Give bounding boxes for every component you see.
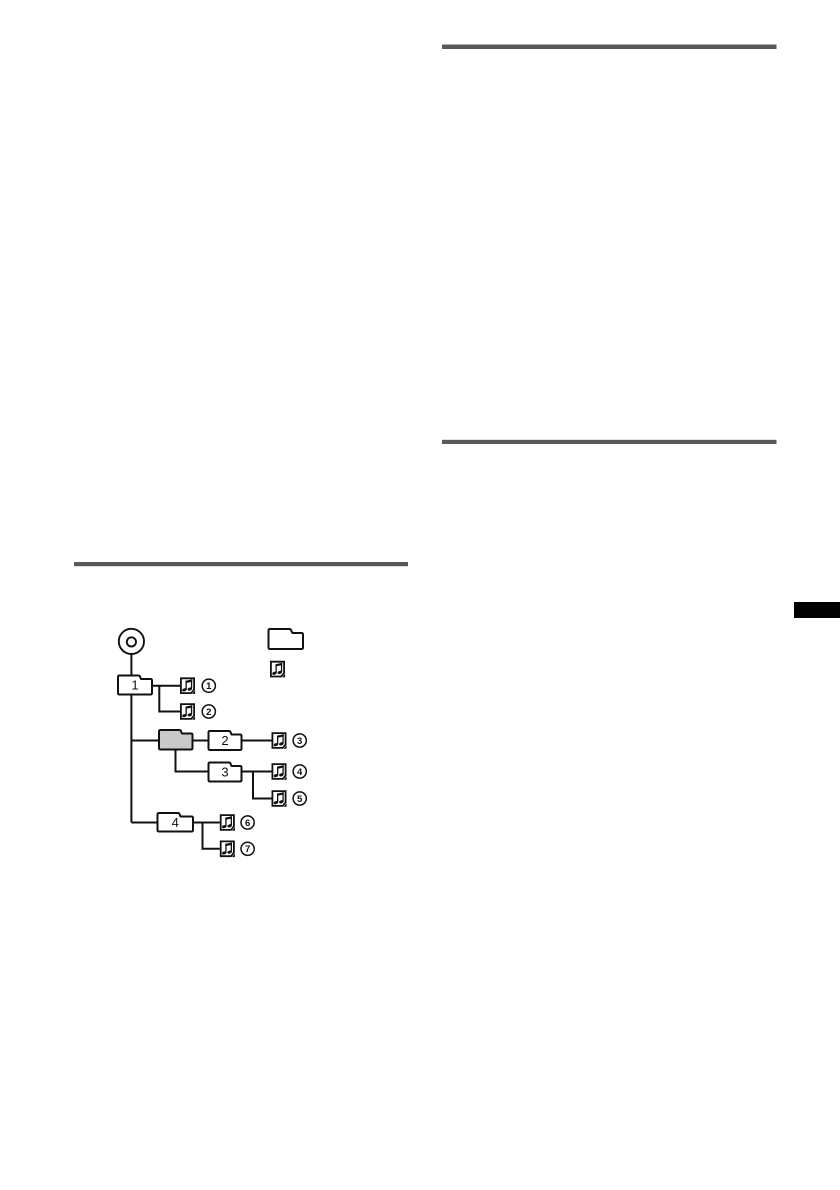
wire folder2 to file3: [242, 740, 272, 742]
svg-text:2: 2: [221, 733, 228, 748]
svg-text:7: 7: [245, 844, 250, 855]
folder 1: [118, 676, 152, 695]
folder 2: [209, 731, 242, 750]
gray folder (unnumbered): [159, 730, 193, 750]
track number 7: [241, 842, 254, 855]
svg-text:1: 1: [206, 681, 212, 692]
legend music file icon: [271, 662, 285, 678]
wire trunk folder1 down to folder4 row: [130, 695, 132, 823]
music file 6: [221, 815, 235, 831]
wire branch to file2: [159, 686, 180, 712]
track number 1: [202, 679, 215, 692]
wire folder1 to file1: [152, 685, 180, 687]
svg-text:6: 6: [245, 818, 250, 829]
folder 3: [209, 763, 242, 782]
music file 7: [221, 841, 235, 857]
svg-text:5: 5: [297, 794, 303, 805]
music file 2: [181, 704, 195, 720]
svg-text:4: 4: [172, 815, 179, 830]
wire gray folder down to folder3: [176, 750, 209, 772]
wire folder4 to file6: [193, 822, 220, 824]
wire branch to file5: [253, 772, 272, 799]
track number 4: [293, 765, 306, 778]
wire gray folder to folder2: [193, 740, 209, 742]
track number 6: [241, 816, 254, 829]
section rule mid-right: [442, 440, 777, 444]
legend folder icon: [269, 629, 304, 649]
wire disc to folder 1: [130, 654, 132, 675]
music file 3: [272, 733, 286, 749]
svg-text:2: 2: [206, 707, 211, 718]
track number 3: [293, 734, 306, 747]
track number 2: [202, 705, 215, 718]
section rule top-right: [442, 45, 777, 50]
folder 4: [158, 813, 194, 832]
svg-text:3: 3: [297, 736, 302, 747]
svg-text:1: 1: [131, 678, 138, 693]
track number 5: [293, 792, 306, 805]
svg-text:4: 4: [297, 767, 303, 778]
section rule left-column: [74, 562, 408, 566]
page edge tab: [794, 602, 840, 618]
wire trunk to gray folder: [131, 740, 159, 742]
wire branch to file7: [203, 823, 220, 849]
music file 1: [181, 678, 195, 694]
music file 4: [272, 764, 286, 780]
wire folder3 to file4: [242, 771, 272, 773]
svg-text:3: 3: [221, 765, 228, 780]
music file 5: [272, 791, 286, 807]
disc icon: [119, 629, 144, 654]
wire trunk to folder4: [131, 822, 157, 824]
